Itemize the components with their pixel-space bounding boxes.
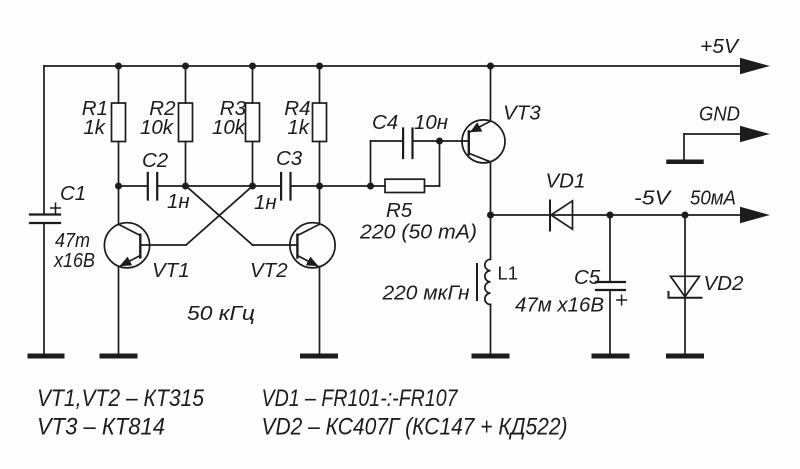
svg-text:1k: 1k [83,116,106,139]
svg-text:С5: С5 [574,266,601,289]
svg-text:C4: C4 [372,111,398,134]
svg-text:1н: 1н [167,190,190,213]
svg-text:220 (50 mA): 220 (50 mA) [359,221,477,244]
svg-text:10k: 10k [212,116,247,139]
svg-text:VT2: VT2 [250,259,288,282]
svg-text:C3: C3 [276,147,303,170]
svg-text:1k: 1k [287,116,310,139]
svg-text:50 кГц: 50 кГц [187,302,255,325]
svg-text:VT3: VT3 [503,102,541,125]
svg-text:x16В: x16В [53,249,95,272]
svg-text:47м x16В: 47м x16В [515,294,604,317]
svg-text:1н: 1н [254,191,277,214]
svg-text:VT3 – КТ814: VT3 – КТ814 [37,414,165,441]
svg-text:GND: GND [699,103,740,126]
svg-text:C2: C2 [142,149,169,172]
svg-text:VD1 – FR101-:-FR107: VD1 – FR101-:-FR107 [262,385,459,412]
svg-text:R5: R5 [386,199,413,222]
svg-text:VD2: VD2 [704,272,744,295]
svg-text:VT1: VT1 [152,259,190,282]
svg-text:VT1,VT2 – КТ315: VT1,VT2 – КТ315 [37,385,205,412]
svg-text:+5V: +5V [700,35,740,58]
svg-text:L1: L1 [498,263,519,284]
svg-text:-5V: -5V [634,187,673,210]
svg-text:VD2 – КС407Г (КС147 + КД522): VD2 – КС407Г (КС147 + КД522) [262,414,568,441]
svg-text:VD1: VD1 [546,170,586,193]
svg-text:220 мкГн: 220 мкГн [381,282,469,305]
svg-text:10k: 10k [140,116,175,139]
svg-text:10н: 10н [414,111,448,134]
svg-text:C1: C1 [60,182,86,205]
svg-text:50мА: 50мА [690,187,736,210]
